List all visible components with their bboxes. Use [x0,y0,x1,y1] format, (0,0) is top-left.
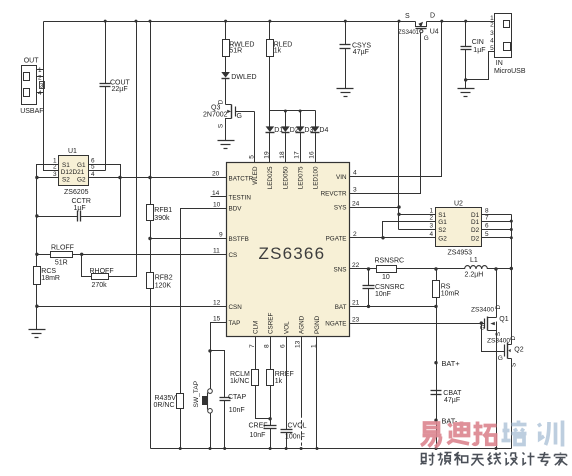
wire S1 to U2 [399,214,436,216]
svg-text:CREF: CREF [249,422,268,429]
svg-text:LED100: LED100 [312,166,319,189]
junction PGATE branch [381,236,384,239]
transistor Q1 ZS3400 [471,305,509,337]
transistor Q3 2N7002 [203,79,255,141]
junction bus p6 [510,228,513,231]
junction RCLM/CSREF [268,417,271,420]
junction bus D2 [284,110,287,113]
svg-text:10nF: 10nF [375,291,391,298]
wire U1 pin6 to BATCTR net [89,165,121,217]
watermark yiditop logo [421,421,563,448]
wire BATCTR net U1 pin4 to ZS6366 pin20 [89,177,227,179]
junction VBUS rail x269.4 [268,20,271,23]
svg-text:7: 7 [249,344,256,348]
wire BAT pin21 [350,306,437,308]
node BAT+ [434,361,437,364]
svg-text:8: 8 [485,208,489,215]
wire TAP to CTAP [211,351,225,398]
svg-text:7: 7 [485,215,489,222]
wire S2 to U2 [399,229,436,231]
svg-text:6: 6 [485,223,489,230]
wire RCLM to CSREF node [256,386,271,419]
diode DWLED [221,72,256,81]
wire Q2 source to ground rail [511,359,513,449]
junction rail x316.5 [316,447,319,450]
wire RFB1 to RFB2 [150,221,152,273]
svg-text:G: G [480,325,485,332]
svg-text:RFB2: RFB2 [155,274,173,281]
capacitor CVOL 100nF [281,422,307,448]
wire U2 drain bus [482,215,512,269]
svg-text:17: 17 [294,151,301,159]
svg-text:RHOFF: RHOFF [90,268,114,275]
svg-text:U2: U2 [454,201,463,208]
svg-text:3: 3 [490,30,494,37]
svg-text:ZS4953: ZS4953 [448,250,473,257]
junction CSN tap [35,305,38,308]
svg-text:390k: 390k [154,215,170,222]
svg-text:CLM: CLM [253,321,260,334]
svg-text:RSNSRC: RSNSRC [375,258,405,265]
svg-text:PGND: PGND [314,315,321,334]
transistor U1 ZS6205 dual FET [37,148,96,196]
svg-text:S2: S2 [62,176,70,183]
svg-text:LED050: LED050 [283,166,290,189]
svg-text:REVCTR: REVCTR [321,191,347,198]
junction S1 tap [397,213,400,216]
junction VBUS rail x135.5 [135,20,138,23]
svg-text:CBAT: CBAT [443,390,462,397]
svg-text:1k: 1k [275,378,283,385]
svg-text:2.2µH: 2.2µH [465,271,484,278]
svg-text:LED025: LED025 [267,166,274,189]
capacitor CREF 10nF [249,422,277,448]
wire NGATE to Q2 gate [482,324,505,352]
svg-text:20: 20 [212,171,220,178]
svg-text:CSREF: CSREF [267,313,274,334]
junction RS top [434,267,437,270]
svg-text:TAP: TAP [229,320,241,327]
svg-text:G2: G2 [438,235,447,242]
svg-text:10mR: 10mR [441,290,460,297]
wire SW_TAP to ground rail [210,414,212,449]
svg-text:23: 23 [352,316,360,323]
svg-text:BATCTR: BATCTR [229,176,254,183]
svg-text:G1: G1 [438,219,447,226]
wire Q1 source to ground rail [496,326,498,449]
junction SW/bus [510,267,513,270]
svg-text:IN: IN [496,60,503,67]
svg-text:5: 5 [485,231,489,238]
inductor L1 2.2uH [465,257,488,279]
junction SYS [397,205,400,208]
wire PGATE to U2 G1 [383,222,436,238]
junction U1 pin3 [35,176,38,179]
svg-text:RFB1: RFB1 [154,207,172,214]
wire U1 pin1-pin3 tie [37,165,59,178]
svg-text:47µF: 47µF [444,397,460,404]
svg-text:D: D [430,13,435,20]
svg-text:ZS3400: ZS3400 [471,306,494,313]
svg-text:1k: 1k [274,48,282,55]
junction BATCTR/RFB1 [148,176,151,179]
svg-text:G: G [498,355,503,362]
wire WLED gate riser to pin5 [254,112,256,163]
resistor RREF 1k [267,370,294,386]
svg-text:D2: D2 [471,235,480,242]
wire BAT column [436,298,438,449]
svg-text:PGATE: PGATE [326,235,347,242]
svg-text:2: 2 [353,231,357,238]
diode D4 [311,111,329,163]
svg-text:13: 13 [295,340,302,348]
junction rail x209.5 [209,447,212,450]
svg-text:BAT+: BAT+ [442,359,460,368]
diode D3 [296,111,314,163]
transistor Q2 ZS3400 [487,336,524,368]
svg-text:21: 21 [352,300,360,307]
wire bus to Q2 drain [511,269,513,345]
svg-text:51R: 51R [229,48,242,55]
svg-text:Q3: Q3 [211,105,220,112]
svg-text:AGND: AGND [298,315,305,334]
pin numbers ZS6366 bottom [249,340,318,348]
svg-text:CCTR: CCTR [72,198,91,205]
junction rail x495.5 [495,447,498,450]
wire CLM pin7 [255,337,257,370]
svg-text:3: 3 [53,171,57,178]
svg-text:2: 2 [38,75,42,82]
svg-text:270k: 270k [92,282,108,289]
resistor RS 10mR [433,269,460,298]
resistor RHOFF 270k [82,22,137,290]
svg-text:RCLM: RCLM [230,371,250,378]
junction RLOFF tap [35,253,38,256]
wire AGND pin13 [301,337,303,415]
ground at CIN [458,88,475,90]
svg-text:RLOFF: RLOFF [51,244,74,251]
wire RSNSRC to L1 [397,268,465,270]
svg-text:1µF: 1µF [473,47,485,54]
junction rail x179.7 [179,447,182,450]
junction rail x435.5 [435,447,438,450]
wire BSTFB to ZS6366 pin9 [151,238,227,240]
junction VBUS rail x149.5 [149,20,152,23]
wire CSREF pin8 [270,337,272,370]
wire PGND pin1 [316,337,318,449]
svg-text:18mR: 18mR [41,275,60,282]
svg-text:S: S [405,13,410,20]
resistor RCLM 1k/NC [230,370,259,386]
svg-text:10nF: 10nF [229,407,245,414]
junction rail x285.6 [285,447,288,450]
watermark slogan RF antenna experts [421,452,568,466]
wire USB pin5 to CIN ground [466,52,495,80]
capacitor CSYS 47uF [340,22,372,89]
svg-text:S1: S1 [438,212,446,219]
junction rail x300.6 [300,447,303,450]
svg-text:MicroUSB: MicroUSB [494,68,526,75]
ground at CSYS [337,88,354,90]
wire VIN pin4 riser [350,22,442,177]
svg-text:D12D21: D12D21 [61,169,85,176]
node BAT- [434,419,437,422]
svg-text:1: 1 [430,208,434,215]
svg-text:8: 8 [264,344,271,348]
junction CCTR left [35,214,38,217]
connector IN MicroUSB [490,14,526,75]
junction VBUS rail x465.2 [464,20,467,23]
junction bus p7 [510,220,513,223]
wire SYS riser [398,22,400,230]
svg-text:G2: G2 [77,176,86,183]
svg-text:12: 12 [213,299,221,306]
svg-text:G1: G1 [77,162,86,169]
resistor RFB2 120K [147,273,173,290]
svg-text:2: 2 [430,215,434,222]
resistor RLOFF 51R [37,244,227,266]
svg-text:S1: S1 [62,162,70,169]
wire PGATE pin2 to U2 G2 [350,237,436,239]
wire U4 gate to REVCTR pin3 [350,33,421,194]
svg-text:CSNSRC: CSNSRC [375,284,405,291]
svg-text:1k/NC: 1k/NC [230,378,249,385]
junction CIN/USB pin5 [464,78,467,81]
junction TAP branch [208,349,211,352]
wire R435V to ground rail [180,409,182,449]
junction RHOFF branch [80,253,83,256]
diode D2 [281,111,299,163]
svg-text:DWLED: DWLED [231,74,256,81]
junction bus p5 [510,236,513,239]
resistor RSNSRC 10 [375,258,405,281]
svg-text:D2: D2 [471,227,480,234]
svg-text:120K: 120K [155,282,172,289]
wire VOL pin6 to CVOL [286,337,288,430]
capacitor CSNSRC 10nF [363,269,405,307]
svg-text:Q1: Q1 [499,316,508,323]
svg-text:2N7002: 2N7002 [203,112,228,119]
wire bottom ground rail [151,448,512,450]
wire RREF to CREF [270,386,272,426]
svg-text:U1: U1 [68,148,77,155]
diode D1 [266,111,284,163]
svg-text:24: 24 [352,200,360,207]
svg-text:10: 10 [382,274,390,281]
pin numbers ZS6366 left [211,171,227,323]
svg-text:SYS: SYS [334,205,347,212]
svg-text:CVOL: CVOL [288,422,307,429]
svg-text:4: 4 [490,38,494,45]
svg-text:USBAF: USBAF [20,108,43,115]
pin numbers ZS6366 right [352,170,360,324]
IC U3 ZS6366 charger [227,163,350,337]
capacitor CIN 1uF [461,22,486,89]
svg-text:SW_TAP: SW_TAP [193,380,200,407]
svg-text:ZS6205: ZS6205 [64,189,89,196]
svg-text:5: 5 [490,45,494,52]
wire BDV riser [181,209,227,394]
junction VBUS rail x344.8 [344,20,347,23]
svg-text:D4: D4 [319,127,328,134]
svg-text:ZS3400: ZS3400 [487,337,510,344]
junction rail x269.6 [269,447,272,450]
svg-text:S: S [218,124,225,128]
svg-text:RREF: RREF [275,371,294,378]
switch SW_TAP [193,380,212,413]
svg-text:ZS3401: ZS3401 [398,30,420,36]
capacitor COUT 22uF [89,22,131,171]
svg-text:VIN: VIN [336,174,347,181]
junction bus D3 [299,110,302,113]
svg-text:TESTIN: TESTIN [229,194,252,201]
transistor U2 ZS4953 dual PFET [430,201,490,257]
resistor R435V 0R/NC [154,394,184,410]
junction VBUS rail x225.1 [224,20,227,23]
wire NGATE pin23 [350,323,485,325]
svg-text:15: 15 [213,315,221,322]
wire RCS bottom to ground [36,285,38,330]
wire SYS pin24 [350,207,399,209]
svg-text:4: 4 [430,231,434,238]
svg-text:SNS: SNS [334,267,347,274]
svg-text:CSN: CSN [229,304,243,311]
svg-text:G: G [237,113,242,120]
junction BSTFB tap [148,237,151,240]
svg-text:CTAP: CTAP [228,394,246,401]
svg-text:3: 3 [430,223,434,230]
svg-text:51R: 51R [55,260,68,267]
svg-text:16: 16 [309,151,316,159]
svg-text:10nF: 10nF [250,432,266,439]
junction G1/G2 [118,176,121,179]
junction SW/Q1 drain [494,267,497,270]
svg-text:NGATE: NGATE [325,321,346,328]
svg-text:0R/NC: 0R/NC [154,402,175,409]
svg-text:47µF: 47µF [353,49,369,56]
wire left column S1 node down [36,178,38,267]
wire RLED to LED bus [269,57,271,111]
wire TAP pin15 [211,323,227,389]
svg-text:CIN: CIN [472,39,484,46]
ground at Q3 [218,140,235,142]
svg-text:BAT: BAT [335,304,347,311]
wire VBUS to RFB divider [150,22,152,205]
svg-text:3: 3 [353,186,357,193]
svg-text:9: 9 [219,232,223,239]
svg-text:R435V: R435V [155,395,177,402]
svg-text:BDV: BDV [229,206,243,213]
svg-text:4: 4 [91,171,95,178]
wire RFB2 to ground rail [150,289,152,449]
svg-text:WLED: WLED [252,166,259,185]
svg-text:U4: U4 [430,29,439,36]
transistor U4 ZS3401 [398,13,439,42]
svg-text:CS: CS [229,252,238,259]
svg-text:18: 18 [279,151,286,159]
capacitor CBAT 47uF [431,390,463,404]
wire LED anode bus [270,110,316,112]
svg-text:OUT: OUT [24,58,40,65]
svg-text:L1: L1 [470,257,478,264]
capacitor CCTR 1uF [37,198,121,221]
svg-text:1µF: 1µF [74,205,86,212]
junction BAT/RS [434,305,437,308]
junction CSNSRC bottom [367,305,370,308]
svg-text:D1: D1 [471,212,480,219]
pin numbers ZS6366 top [248,151,315,159]
resistor RCS 18mR [34,267,60,285]
svg-text:G: G [424,35,429,42]
svg-text:22µF: 22µF [112,86,128,93]
svg-text:2: 2 [490,22,494,29]
svg-text:LED075: LED075 [297,166,304,189]
wire L1 to SW node [488,268,512,270]
resistor RLED 1k [267,22,293,57]
junction CSNSRC top [367,267,370,270]
wire Q1 drain to SW [496,269,498,318]
junction VBUS rail x104.7 [104,20,107,23]
connector OUT USBAF [20,58,44,116]
svg-text:RS: RS [441,283,451,290]
svg-text:6: 6 [280,344,287,348]
junction VBUS rail x398.5 [398,20,401,23]
svg-text:Q2: Q2 [514,346,523,353]
svg-text:14: 14 [212,190,220,197]
resistor RWLED 51R [223,22,255,57]
svg-text:S2: S2 [438,227,446,234]
svg-text:10: 10 [213,201,221,208]
svg-text:4: 4 [38,90,42,97]
junction NGATE branch [480,321,483,324]
svg-text:1: 1 [38,67,42,74]
svg-text:VOL: VOL [283,321,290,334]
wire OUT connector to U1 pin2 [44,22,59,171]
wire top VBUS/OUT rail [44,21,416,23]
svg-text:BSTFB: BSTFB [229,236,249,243]
junction rail x224.2 [223,447,226,450]
svg-text:11: 11 [213,248,220,255]
svg-text:D1: D1 [471,219,480,226]
svg-text:4: 4 [353,170,357,177]
capacitor CTAP 10nF [220,394,247,448]
wire RWLED to DWLED [225,57,227,73]
svg-text:ZS6366: ZS6366 [259,244,326,263]
resistor RFB1 390k [147,205,173,223]
wire CSN to ZS6366 pin12 [37,306,227,308]
wire SNS pin22 [350,268,377,270]
junction VBUS rail x441.3 [440,20,443,23]
ground at RCS [29,329,46,331]
